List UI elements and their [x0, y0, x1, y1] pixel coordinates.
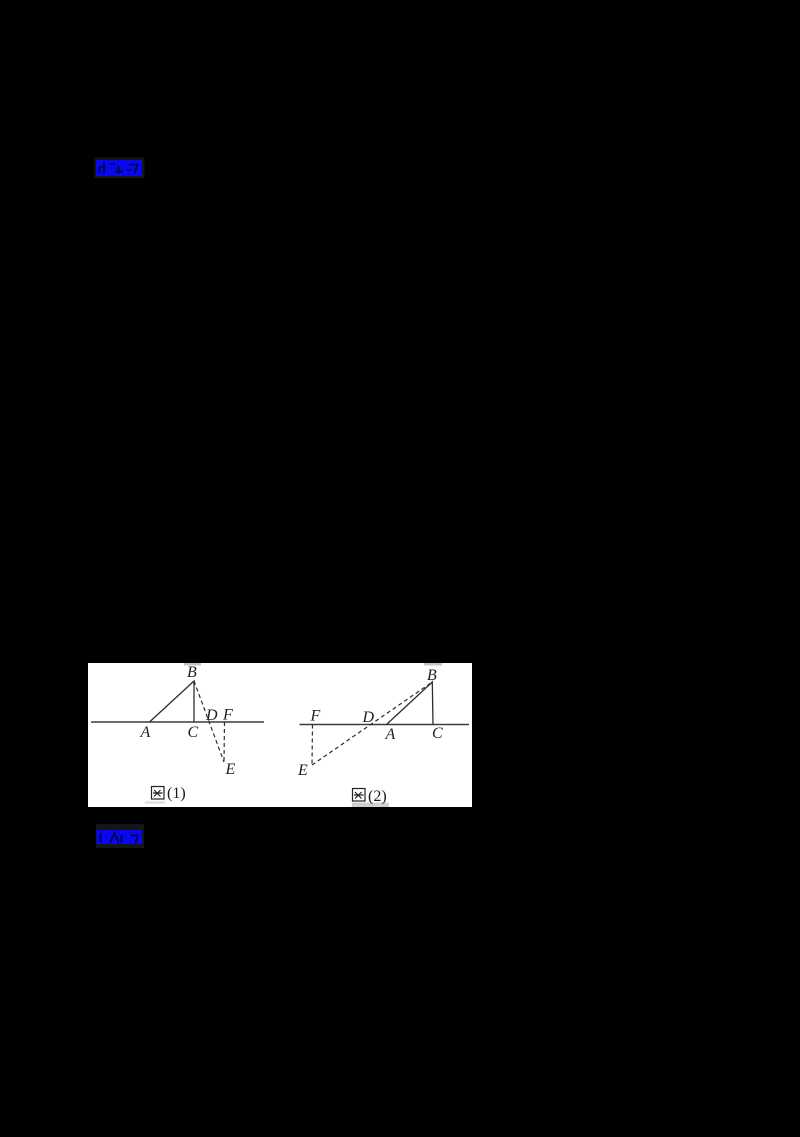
- svg-text:(2): (2): [368, 788, 387, 805]
- svg-text:C: C: [188, 724, 199, 741]
- svg-text:B: B: [187, 664, 197, 681]
- svg-text:E: E: [225, 761, 236, 778]
- svg-text:F: F: [222, 707, 233, 724]
- svg-text:(1): (1): [167, 785, 186, 802]
- svg-text:C: C: [432, 725, 443, 742]
- svg-text:B: B: [427, 667, 437, 684]
- svg-text:F: F: [310, 708, 321, 725]
- svg-text:A: A: [385, 726, 396, 743]
- svg-text:A: A: [140, 724, 151, 741]
- svg-text:E: E: [297, 762, 308, 779]
- svg-text:D: D: [205, 707, 218, 724]
- svg-text:D: D: [362, 709, 375, 726]
